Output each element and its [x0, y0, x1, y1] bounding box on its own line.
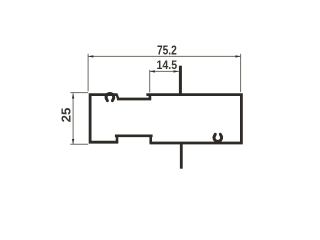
dim 75.2 arrow left: [88, 55, 93, 57]
top glazing fin: [179, 66, 182, 96]
screw boss bottom-right (C ring, gap at top): [214, 134, 222, 142]
dim 25 arrow top: [72, 93, 74, 98]
dim 14.5 line: [150, 70, 179, 72]
top step riser: [149, 94, 152, 99]
profile outline: left box (top flange, left edge, bottom-left edge): [90, 95, 118, 143]
dim 25 arrow bottom: [72, 139, 74, 144]
dim 75.2 extension line left: [87, 54, 89, 92]
profile bottom notch: left riser, ceiling, right riser: [116, 136, 119, 143]
dim 25 line: [72, 93, 74, 144]
svg-text:25: 25: [58, 108, 73, 123]
dim 14.5 extension line left: [149, 70, 151, 93]
bottom fin: [180, 143, 183, 168]
dim 75.2 arrow right: [235, 55, 240, 57]
dim 75.2 extension line right: [240, 54, 242, 92]
profile right body: bottom edge, right edge, top edge with lip: [146, 95, 241, 143]
top channel line: [117, 98, 151, 101]
svg-text:75.2: 75.2: [157, 42, 177, 57]
dim 25 extension line bottom: [70, 143, 88, 145]
boss-to-channel bulge: [117, 95, 118, 99]
screw boss top-left (C ring, gap at bottom): [106, 94, 114, 102]
svg-text:14.5: 14.5: [157, 58, 178, 72]
dim 14.5 arrow right: [174, 70, 179, 72]
dim 25 extension line top: [70, 92, 88, 94]
dim 14.5 arrow left: [150, 70, 155, 72]
dim 75.2 line: [88, 55, 241, 57]
